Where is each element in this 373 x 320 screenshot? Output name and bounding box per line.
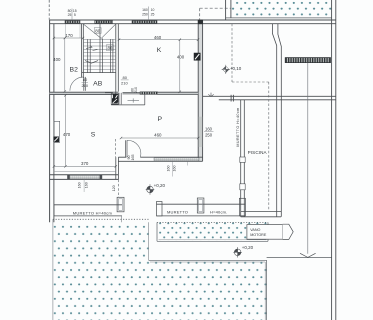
svg-text:MURETTO H=40cm: MURETTO H=40cm xyxy=(236,107,240,146)
svg-text:250: 250 xyxy=(205,133,213,138)
B2 door arc xyxy=(70,77,84,91)
B2 door leaf xyxy=(83,77,85,91)
left wall outer xyxy=(49,20,51,222)
stair down arrow chevron xyxy=(85,61,98,64)
dashed below S window to muretto post xyxy=(118,180,120,198)
svg-text:+0,20: +0,20 xyxy=(242,245,254,250)
dim end ticks xyxy=(53,37,200,168)
left wall inner xyxy=(53,24,55,223)
K left wall / stair right wall xyxy=(115,24,117,96)
stair tiny direction arrows xyxy=(86,46,92,49)
muretto post left xyxy=(117,197,124,212)
dim 170 B2 xyxy=(54,37,83,39)
window label 160/250 above K window xyxy=(148,7,150,21)
svg-text:160: 160 xyxy=(78,182,82,188)
black pillar S/P corner xyxy=(113,94,118,102)
svg-text:25: 25 xyxy=(68,13,72,17)
svg-text:250: 250 xyxy=(142,12,148,16)
dim 400 K xyxy=(179,40,181,92)
dim 460 P xyxy=(121,137,198,139)
muretto left xyxy=(54,204,122,206)
svg-text:+0,10: +0,10 xyxy=(230,66,242,71)
terrace stipple top-right xyxy=(231,0,332,18)
svg-text:K: K xyxy=(157,47,162,54)
svg-text:MURETTO H=40cm: MURETTO H=40cm xyxy=(73,210,113,215)
P bottom wall xyxy=(118,156,126,158)
svg-text:+0,20: +0,20 xyxy=(154,183,166,188)
stair left wall / B2 right wall xyxy=(81,24,83,78)
pool muretto left xyxy=(240,100,242,217)
slope centerline xyxy=(307,63,309,254)
svg-text:80: 80 xyxy=(95,28,100,33)
svg-text:VANO: VANO xyxy=(250,228,260,232)
S/P divider wall xyxy=(115,157,117,179)
K right wall xyxy=(198,24,202,161)
stair bottom edge xyxy=(82,72,116,74)
svg-text:160: 160 xyxy=(205,126,213,131)
svg-text:MOTORE: MOTORE xyxy=(250,233,267,237)
svg-text:160: 160 xyxy=(172,166,176,172)
property dashed line top-left xyxy=(48,0,50,20)
svg-text:80: 80 xyxy=(83,77,88,82)
svg-text:PISCINA: PISCINA xyxy=(248,150,268,155)
wall band right of building xyxy=(203,95,336,97)
stair center stringers xyxy=(99,24,101,73)
S top wall xyxy=(50,92,113,94)
muretto right xyxy=(157,203,246,205)
svg-text:S: S xyxy=(91,131,96,138)
terrace left wall xyxy=(225,0,227,20)
svg-text:370: 370 xyxy=(81,161,89,166)
svg-text:460: 460 xyxy=(154,35,162,40)
muretto right posts xyxy=(157,202,163,216)
right boundary double wall xyxy=(331,0,333,320)
svg-text:160: 160 xyxy=(85,182,89,188)
svg-text:470: 470 xyxy=(63,132,71,137)
chimney box on S left wall xyxy=(54,121,60,142)
svg-text:5: 5 xyxy=(74,13,76,17)
svg-text:25: 25 xyxy=(151,12,155,16)
svg-text:MURETTO: MURETTO xyxy=(167,210,188,215)
dim 370 S xyxy=(54,165,116,167)
svg-text:210: 210 xyxy=(121,81,128,86)
window stair top (hatched) xyxy=(95,21,113,24)
S bottom wall xyxy=(50,174,119,176)
svg-text:170: 170 xyxy=(65,33,73,38)
svg-text:AB: AB xyxy=(93,81,103,88)
stair winder diagonals xyxy=(83,24,116,38)
S window sill xyxy=(69,176,101,179)
retaining wall hatch strip xyxy=(285,58,330,63)
black shaft box xyxy=(111,94,118,105)
stair labels xyxy=(94,28,101,34)
dim 400 B2 xyxy=(64,38,66,92)
terrace bottom edge xyxy=(226,17,332,19)
P window sill xyxy=(154,158,199,161)
window label 80/25 above B2 window xyxy=(71,9,73,21)
horizontal line lower right xyxy=(267,257,332,259)
big stipple area xyxy=(53,222,267,320)
S window outer sill line xyxy=(54,171,116,173)
sink symbol xyxy=(128,100,140,102)
P door arc xyxy=(127,140,141,157)
dashed S/P virtual divider xyxy=(115,139,117,157)
entry arrow on band xyxy=(210,93,212,97)
elevation marker +0,20 right xyxy=(233,247,242,257)
window P right wall (gray) xyxy=(199,117,203,147)
pillar on K right wall xyxy=(194,53,200,60)
bath door leaf xyxy=(118,93,120,105)
top wall outer line xyxy=(50,19,337,21)
pool bottom xyxy=(241,210,281,212)
svg-text:P: P xyxy=(158,116,163,123)
bath top wall xyxy=(105,92,113,94)
hatched wall segment K bottom xyxy=(140,92,158,95)
stipple strip right xyxy=(157,222,268,241)
svg-text:120: 120 xyxy=(112,185,116,191)
P door leaf xyxy=(125,140,127,157)
svg-text:160: 160 xyxy=(166,166,170,172)
window B2 top (hatched) xyxy=(65,21,80,24)
dashed offset line top-right of building xyxy=(200,7,231,9)
svg-text:210: 210 xyxy=(134,87,138,93)
svg-text:H=40cm.: H=40cm. xyxy=(210,210,228,215)
pool right wall with jog xyxy=(272,24,276,217)
window K top (hatched) xyxy=(132,21,157,24)
bath box xyxy=(111,104,145,106)
VANO MOTORE box xyxy=(247,225,283,240)
dashed lines pool xyxy=(231,24,233,82)
wall band K bottom right xyxy=(158,92,199,94)
svg-text:80: 80 xyxy=(107,45,112,50)
dim 470 S xyxy=(65,95,67,166)
svg-text:80: 80 xyxy=(122,75,127,80)
dim 460 K xyxy=(119,39,198,41)
elevation marker +0,20 left xyxy=(146,184,155,194)
svg-text:460: 460 xyxy=(154,133,162,138)
top wall inner line xyxy=(50,23,232,25)
elevation marker +0,10 xyxy=(222,65,230,74)
svg-text:210: 210 xyxy=(81,83,88,88)
svg-text:400: 400 xyxy=(177,55,185,60)
svg-text:165: 165 xyxy=(131,155,135,161)
gate posts on band xyxy=(230,95,232,102)
svg-text:90: 90 xyxy=(127,156,131,160)
svg-text:400: 400 xyxy=(53,57,61,62)
svg-text:B2: B2 xyxy=(70,67,79,74)
skimmer boxes xyxy=(240,157,245,162)
stair treads xyxy=(83,39,116,69)
